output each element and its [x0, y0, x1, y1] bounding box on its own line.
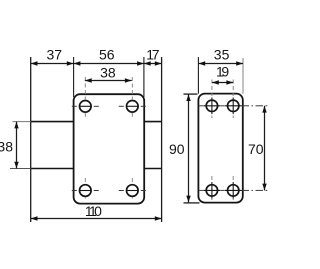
svg-text:38: 38: [100, 64, 116, 80]
arrow 90 down: [186, 196, 190, 203]
hole body top-left: [80, 101, 92, 113]
centerline vertical keeper left holes: [211, 80, 213, 201]
hole body top-right: [127, 101, 139, 113]
crosshair keeper top-right: [225, 98, 242, 115]
dimension line 19: [212, 82, 233, 84]
dimension line 110: [31, 218, 162, 220]
svg-text:56: 56: [99, 46, 115, 62]
centerline vertical body right holes: [131, 77, 133, 199]
centerline dashes horizontal body bottom holes: [72, 190, 146, 192]
cylinder dim extension top: [13, 121, 31, 123]
hole keeper bottom-left: [206, 185, 217, 196]
arrow 38 left: [85, 78, 92, 82]
extension line keeper right edge for 35 (grey): [242, 58, 244, 94]
arrow 90 up: [186, 94, 190, 101]
plate top edge: [144, 121, 161, 123]
centerline vertical keeper right holes: [232, 80, 234, 201]
extension line left (cylinder left edge): [30, 57, 32, 222]
svg-text:38: 38: [0, 139, 13, 155]
arrow 110 right: [155, 216, 162, 220]
arrow 35 right: [236, 61, 243, 65]
arrow 56 left: [74, 61, 81, 65]
centerline dashes horizontal keeper top holes to 70-dim: [199, 105, 267, 107]
extension line right (plate right edge): [161, 57, 163, 222]
dimension line 35: [198, 63, 243, 65]
arrow 38 right: [125, 78, 132, 82]
cylinder dim extension bottom: [10, 168, 31, 170]
extension line keeper left edge for 35: [197, 57, 199, 94]
extension line body right edge: [143, 57, 145, 97]
arrow 56 right: [137, 61, 144, 65]
centerline dashes horizontal body top holes: [72, 105, 146, 107]
lock body rounded rectangle: [74, 94, 145, 203]
arrow 35 left: [198, 61, 205, 65]
extension line 90 bottom: [184, 202, 200, 204]
extension line body left edge: [73, 57, 75, 97]
dimension line 38 top holes: [85, 80, 132, 82]
arrow 38cyl down: [14, 162, 18, 169]
centerline dashes horizontal keeper bottom holes to 70-dim: [199, 189, 267, 191]
arrow 70 down: [262, 184, 266, 191]
crosshair bar body top-left hole: [79, 105, 92, 107]
extension line 90 top: [184, 93, 198, 95]
cylinder bottom edge: [31, 168, 74, 170]
crosshair keeper bottom-left: [204, 182, 221, 199]
svg-text:110: 110: [85, 203, 102, 219]
dimension line 90: [188, 94, 190, 202]
arrow 110 left: [31, 216, 38, 220]
crosshair keeper top-left: [204, 98, 221, 115]
hole keeper top-right: [228, 100, 239, 111]
hole keeper top-left: [206, 100, 217, 111]
plate bottom edge: [144, 168, 161, 170]
arrow 19 left: [212, 80, 219, 84]
hole body bottom-right: [127, 185, 139, 197]
arrow 17 left: [144, 61, 151, 65]
dimension line 38 cylinder vertical: [16, 122, 18, 169]
top dimension line 37/56/17: [31, 63, 162, 65]
hole keeper bottom-right: [228, 185, 239, 196]
crosshair bar body bottom-left hole: [79, 190, 92, 192]
keeper plate rounded rectangle: [198, 94, 242, 203]
svg-text:70: 70: [248, 141, 264, 157]
svg-text:17: 17: [146, 46, 159, 62]
crosshair bar body top-right hole: [126, 105, 139, 107]
arrow 38cyl up: [14, 122, 18, 129]
arrow 37 left: [31, 61, 38, 65]
dimension line 70: [264, 106, 266, 191]
arrow 37 right: [67, 61, 74, 65]
svg-text:90: 90: [169, 141, 185, 157]
hole body bottom-left: [80, 185, 92, 197]
crosshair keeper bottom-right: [225, 182, 242, 199]
svg-text:35: 35: [214, 46, 230, 62]
centerline vertical body left holes: [84, 77, 86, 199]
svg-text:19: 19: [216, 63, 229, 79]
cylinder top edge: [31, 121, 74, 123]
crosshair bar body bottom-right hole: [126, 190, 139, 192]
arrow 70 up: [262, 106, 266, 113]
svg-text:37: 37: [47, 46, 63, 62]
arrow 17 right: [155, 61, 162, 65]
arrow 19 right: [226, 80, 233, 84]
